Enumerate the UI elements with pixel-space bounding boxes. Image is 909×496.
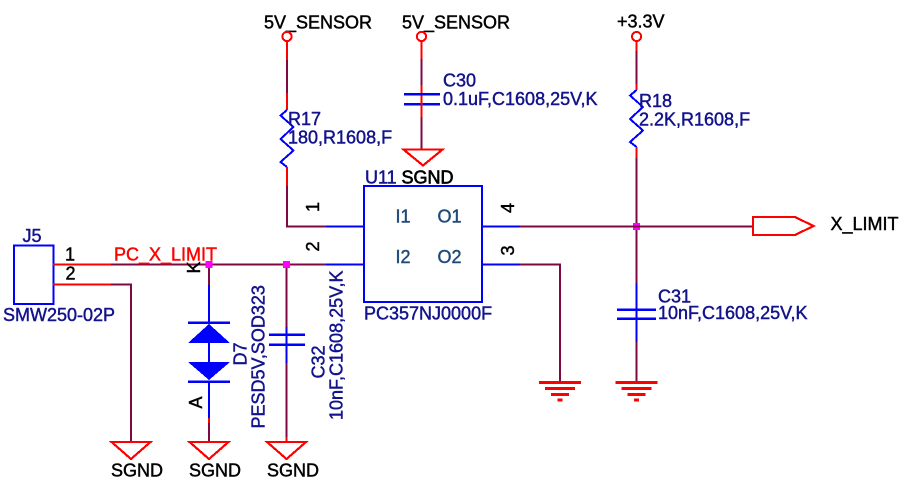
svg-text:R18: R18: [639, 91, 672, 111]
pin 2 of U11: [303, 241, 364, 264]
svg-text:0.1uF,C1608,25V,K: 0.1uF,C1608,25V,K: [443, 89, 597, 109]
svg-text:SGND: SGND: [189, 460, 241, 480]
svg-text:X_LIMIT: X_LIMIT: [831, 214, 899, 235]
svg-text:5V_SENSOR: 5V_SENSOR: [264, 13, 372, 34]
svg-text:SGND: SGND: [267, 460, 319, 480]
wire: +3.3V to R18: [636, 42, 638, 90]
pin 4 of U11: [482, 203, 520, 227]
svg-text:SGND: SGND: [111, 460, 163, 480]
svg-text:1: 1: [65, 245, 75, 265]
svg-text:4: 4: [498, 203, 518, 213]
svg-text:I2: I2: [396, 247, 411, 267]
resistor R18: [630, 90, 750, 147]
svg-text:R17: R17: [288, 109, 321, 129]
capacitor C32: [269, 271, 347, 420]
svg-text:PC357NJ0000F: PC357NJ0000F: [364, 304, 492, 324]
wire: U11 pin3 to ground: [520, 265, 560, 383]
ground SGND (under C30): [402, 150, 454, 188]
wire: C31 to ground: [636, 342, 638, 382]
svg-text:2.2K,R1608,F: 2.2K,R1608,F: [639, 110, 750, 130]
wire: C32 to SGND: [286, 363, 288, 437]
junction at R18/C31: [633, 223, 640, 230]
svg-text:10nF,C1608,25V,K: 10nF,C1608,25V,K: [658, 303, 807, 323]
svg-text:SMW250-02P: SMW250-02P: [3, 305, 115, 325]
svg-text:5V_SENSOR: 5V_SENSOR: [402, 13, 510, 34]
ground SGND (J5 pin2): [111, 442, 163, 480]
svg-text:2: 2: [303, 241, 323, 251]
power symbol 5V_SENSOR (middle): [402, 13, 510, 42]
opto-isolator U11: [364, 168, 492, 324]
svg-text:SGND: SGND: [402, 168, 454, 188]
pin 3 of U11: [482, 245, 520, 264]
ground earth (U11 pin3): [539, 383, 581, 401]
wire: net PC_X_LIMIT J5 pin1 to U11 pin2: [111, 264, 326, 266]
svg-text:+3.3V: +3.3V: [617, 12, 665, 32]
ground SGND (C32): [267, 442, 319, 480]
ground earth (C31): [616, 383, 658, 401]
svg-text:D7: D7: [231, 342, 251, 365]
pin 1 of U11: [303, 202, 364, 227]
svg-text:PESD5V,SOD323: PESD5V,SOD323: [249, 285, 269, 428]
svg-text:O2: O2: [438, 247, 462, 267]
ground SGND (D7): [189, 442, 241, 480]
wire: R18 to junction: [636, 147, 638, 227]
wire: J5 pin2 to SGND: [111, 285, 131, 442]
svg-text:K: K: [184, 261, 204, 273]
svg-text:C32: C32: [309, 345, 329, 378]
power symbol +3.3V: [617, 12, 665, 42]
junction at C32: [283, 261, 290, 268]
svg-text:180,R1608,F: 180,R1608,F: [288, 128, 392, 148]
wire: 5V_SENSOR to C30: [421, 42, 423, 105]
power symbol 5V_SENSOR (left): [264, 13, 372, 42]
capacitor C30: [404, 71, 597, 110]
connector J5: [3, 226, 115, 325]
svg-text:1: 1: [303, 202, 323, 212]
svg-text:2: 2: [66, 264, 76, 284]
pin 2 of J5: [53, 264, 111, 285]
svg-text:I1: I1: [396, 207, 411, 227]
wire: C30 to ground: [421, 103, 423, 149]
junction at D7: [206, 261, 213, 268]
wire: R17 to U11 pin1: [287, 167, 326, 227]
wire: junction to C32: [286, 268, 288, 327]
resistor R17: [281, 109, 393, 167]
wire: 5V_SENSOR to R17: [286, 42, 288, 110]
port X_LIMIT: [753, 214, 899, 235]
wire: D7 to SGND: [208, 418, 210, 441]
svg-text:A: A: [186, 396, 206, 408]
svg-text:3: 3: [498, 245, 518, 255]
diode D7 (dual TVS): [188, 285, 269, 429]
svg-text:O1: O1: [438, 207, 462, 227]
svg-text:J5: J5: [23, 226, 42, 246]
svg-text:U11: U11: [365, 168, 397, 188]
pin 1 of J5: [53, 245, 111, 265]
svg-text:C30: C30: [443, 71, 476, 91]
capacitor C31: [617, 283, 807, 342]
wire: U11 pin4 to port X_LIMIT: [520, 226, 753, 228]
wire: junction to D7: [208, 268, 210, 285]
wire: junction down to C31: [636, 230, 638, 283]
svg-text:10nF,C1608,25V,K: 10nF,C1608,25V,K: [327, 271, 347, 420]
